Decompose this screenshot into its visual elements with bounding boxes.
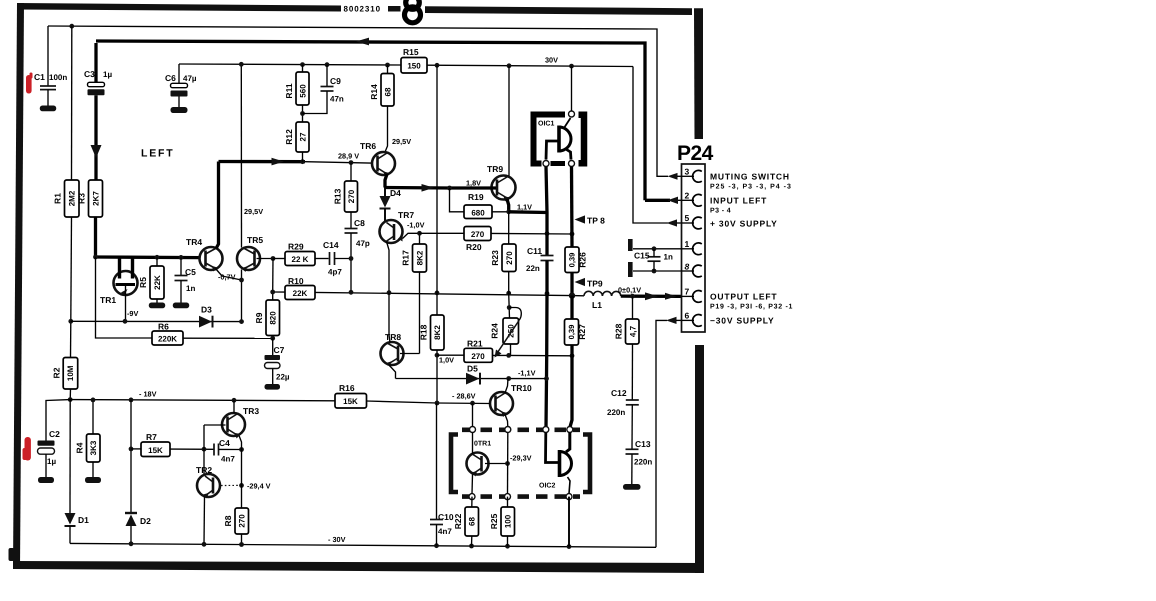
- node junction on muting wire: [69, 24, 74, 29]
- svg-text:R26: R26: [578, 252, 588, 268]
- svg-text:22n: 22n: [526, 264, 540, 273]
- svg-text:47n: 47n: [330, 95, 344, 104]
- resistor R10: [285, 276, 315, 300]
- svg-text:-1,0V: -1,0V: [407, 221, 425, 230]
- wire muting net top horizontal (C1 to P24 pin3): [48, 26, 668, 176]
- transistor TR6: [360, 141, 395, 177]
- frame border right upper: [694, 8, 703, 139]
- resistor R2: [52, 358, 78, 390]
- frame border right lower: [695, 345, 704, 573]
- svg-text:C15: C15: [634, 251, 650, 261]
- svg-text:-0,7V: -0,7V: [218, 273, 236, 282]
- svg-text:150: 150: [407, 62, 421, 71]
- svg-text:R18: R18: [419, 324, 429, 340]
- svg-text:0±0,1V: 0±0,1V: [618, 286, 641, 295]
- svg-text:220n: 220n: [634, 458, 652, 467]
- OIC2 pin circles bottom: [469, 494, 475, 500]
- arrow on C3 column pointing down: [91, 145, 102, 158]
- svg-text:R10: R10: [288, 276, 304, 286]
- svg-text:15K: 15K: [148, 446, 163, 455]
- capacitor C6: [165, 64, 197, 113]
- svg-text:0TR1: 0TR1: [474, 441, 491, 448]
- svg-text:OIC2: OIC2: [539, 483, 555, 490]
- wire column x241 TR3-emitter to R8: [241, 450, 243, 509]
- wire TR9 collector to 30V rail: [508, 66, 510, 176]
- resistor R6: [152, 322, 275, 346]
- svg-text:- 30V: - 30V: [328, 535, 346, 544]
- svg-text:8: 8: [685, 262, 690, 272]
- capacitor C10: [430, 403, 454, 546]
- main output line y292-296: [273, 291, 286, 293]
- ground below R5: [149, 303, 165, 309]
- pin 7: [682, 287, 702, 303]
- wire emitters node down to D3 line: [241, 270, 243, 322]
- resistor R5: [138, 257, 164, 303]
- transistor TR3: [222, 406, 259, 439]
- svg-text:D4: D4: [390, 188, 401, 198]
- svg-text:-29,3V: -29,3V: [510, 454, 532, 463]
- svg-text:1,8V: 1,8V: [466, 179, 481, 188]
- svg-text:29,5V: 29,5V: [392, 137, 411, 146]
- resistor R26: [565, 247, 588, 273]
- svg-text:15K: 15K: [343, 397, 358, 406]
- svg-text:R29: R29: [288, 242, 304, 252]
- svg-text:-29,4 V: -29,4 V: [247, 482, 271, 491]
- frame border short bar: [388, 6, 401, 12]
- resistor R7: [131, 432, 214, 457]
- red annotation mark bottom: [23, 437, 31, 461]
- svg-text:30V: 30V: [545, 56, 558, 65]
- arrow into pin3: [668, 173, 678, 180]
- wire OIC1 bottom-left down x547 thick: [546, 167, 547, 213]
- wire TR6 emitter to TR9 base thick with arrow: [385, 186, 450, 190]
- svg-text:270: 270: [471, 230, 485, 239]
- resistor R12: [284, 122, 309, 162]
- pin 6: [682, 311, 702, 327]
- svg-text:0,39: 0,39: [568, 253, 577, 268]
- wire TR6 emitter node thick: [385, 174, 387, 188]
- wire TR9 base thick from TR6: [450, 186, 497, 189]
- svg-text:560: 560: [299, 84, 308, 98]
- frame border bottom: [13, 561, 704, 573]
- transistor TR7: [380, 210, 415, 243]
- svg-text:C6: C6: [165, 73, 176, 83]
- wire TR8 collector to main line: [389, 293, 390, 343]
- svg-text:270: 270: [347, 189, 356, 203]
- wire TR7 emitter to R20 line: [403, 233, 420, 238]
- svg-text:R4: R4: [75, 442, 85, 453]
- wire TR4 collector thick up: [216, 162, 219, 249]
- svg-text:4,7: 4,7: [628, 325, 637, 337]
- diode D2: [125, 400, 151, 544]
- red annotation mark top: [26, 73, 33, 94]
- wire TR3 emitter: [239, 436, 242, 450]
- svg-text:1µ: 1µ: [47, 457, 56, 466]
- svg-text:R15: R15: [403, 47, 419, 57]
- capacitor C12: [607, 388, 639, 449]
- svg-text:P3 - 4: P3 - 4: [710, 208, 731, 215]
- svg-text:TR1: TR1: [100, 295, 116, 305]
- opto transistor 0TR1: [467, 433, 510, 494]
- OIC1 internal LED: [546, 118, 571, 160]
- svg-text:220n: 220n: [607, 408, 625, 417]
- svg-text:C8: C8: [354, 218, 365, 228]
- transistor TR2: [196, 465, 220, 499]
- svg-text:TR3: TR3: [243, 406, 259, 416]
- resistor R3: [77, 180, 103, 217]
- diode D4: [380, 188, 402, 222]
- svg-text:R1: R1: [53, 193, 63, 204]
- pin 3: [682, 167, 702, 183]
- svg-text:-9V: -9V: [127, 309, 138, 318]
- wire TR7 collector to main line: [387, 242, 390, 293]
- svg-text:820: 820: [269, 311, 278, 325]
- pin 2: [682, 191, 702, 207]
- output node big junction: [569, 292, 575, 298]
- svg-text:TR4: TR4: [186, 237, 202, 247]
- wire TR8 base: [400, 353, 420, 355]
- wire TR10 emitter to OIC2: [505, 415, 508, 428]
- svg-text:2M2: 2M2: [68, 190, 77, 206]
- ground below C5: [173, 303, 189, 309]
- test point TP8: [575, 215, 586, 223]
- capacitor C3 (input coupling): [84, 43, 112, 180]
- svg-text:P25 -3, P3 -3, P4 -3: P25 -3, P3 -3, P4 -3: [710, 184, 792, 191]
- svg-text:270: 270: [471, 352, 485, 361]
- svg-text:C7: C7: [274, 345, 285, 355]
- svg-text:R16: R16: [339, 383, 355, 393]
- svg-text:R12: R12: [284, 129, 294, 145]
- svg-text:OIC1: OIC1: [538, 121, 554, 128]
- svg-text:1: 1: [685, 239, 690, 249]
- svg-text:TR8: TR8: [385, 332, 401, 342]
- wire 30V rail: [179, 64, 401, 65]
- svg-text:22K: 22K: [293, 289, 308, 298]
- svg-text:TP9: TP9: [587, 279, 603, 289]
- svg-text:8K2: 8K2: [433, 325, 442, 340]
- capacitor C5: [175, 257, 197, 303]
- svg-text:OUTPUT LEFT: OUTPUT LEFT: [710, 292, 777, 302]
- svg-text:68: 68: [384, 87, 393, 96]
- opto coupler OIC1 outline: [534, 115, 585, 164]
- svg-text:C2: C2: [49, 429, 60, 439]
- resistor R28: [614, 296, 640, 399]
- transistor TR4: [186, 237, 223, 272]
- resistor R27: [565, 296, 588, 427]
- scan blob on frame bottom-left: [9, 548, 15, 561]
- frame border top-right segment: [425, 6, 692, 15]
- capacitor C9: [303, 65, 344, 114]
- wire TR5 node down to R9: [272, 259, 274, 293]
- svg-text:R7: R7: [146, 432, 157, 442]
- svg-text:220K: 220K: [158, 335, 177, 344]
- wire TR3 collector to -18V rail: [233, 400, 235, 413]
- wire thick R26 to output node: [570, 273, 573, 296]
- wire L1 to pin7 thick: [621, 294, 682, 298]
- capacitor C13: [623, 439, 652, 490]
- dotted leader TR2 base to node: [221, 484, 238, 486]
- resistor R25: [489, 497, 515, 547]
- svg-text:TR10: TR10: [511, 383, 532, 393]
- svg-text:1n: 1n: [664, 253, 673, 262]
- svg-text:270: 270: [505, 251, 514, 265]
- svg-text:C1: C1: [34, 72, 45, 82]
- resistor R16: [335, 383, 490, 408]
- ground below C1: [40, 106, 56, 112]
- wire TR9 emitter to x547 column thick: [509, 210, 547, 214]
- svg-text:8K2: 8K2: [415, 250, 424, 265]
- svg-text:C9: C9: [330, 76, 341, 86]
- pin 1: [682, 239, 702, 255]
- wire x547 column below main line: [546, 293, 547, 427]
- resistor R13: [333, 163, 358, 212]
- resistor R21: [437, 339, 574, 363]
- frame border top-left segment: [17, 3, 341, 12]
- svg-text:R20: R20: [466, 242, 482, 252]
- resistor R18: [419, 293, 445, 403]
- arrow on input wire pointing left: [356, 38, 369, 46]
- svg-text:R27: R27: [577, 324, 587, 340]
- arrow into wire at pin5: [667, 219, 678, 226]
- svg-text:10M: 10M: [66, 365, 75, 381]
- svg-text:C12: C12: [611, 388, 627, 398]
- resistor R23: [490, 212, 516, 293]
- capacitor C11: [526, 213, 554, 294]
- wire left column x71: [71, 26, 73, 180]
- svg-text:3: 3: [685, 167, 690, 177]
- svg-text:1µ: 1µ: [103, 70, 112, 79]
- wire R6 line: [96, 257, 153, 338]
- svg-text:R6: R6: [158, 322, 169, 332]
- svg-text:TR7: TR7: [398, 210, 414, 220]
- svg-text:100n: 100n: [49, 73, 67, 82]
- svg-text:2: 2: [685, 191, 690, 201]
- svg-text:250: 250: [507, 324, 516, 338]
- transistor TR1 (FET): [100, 258, 138, 321]
- svg-text:47p: 47p: [356, 239, 370, 248]
- capacitor C15 with shield stubs: [628, 239, 682, 277]
- svg-text:22K: 22K: [153, 275, 162, 290]
- svg-text:22µ: 22µ: [276, 373, 290, 382]
- svg-text:2K7: 2K7: [91, 191, 100, 206]
- svg-text:R13: R13: [333, 188, 343, 204]
- wire OIC1 top to 30V rail: [571, 66, 573, 111]
- svg-text:C13: C13: [635, 439, 651, 449]
- svg-text:R28: R28: [614, 323, 624, 339]
- svg-text:C14: C14: [323, 240, 339, 250]
- svg-text:270: 270: [238, 514, 247, 528]
- svg-text:1,1V: 1,1V: [517, 203, 532, 212]
- svg-text:7: 7: [685, 287, 690, 297]
- wire OIC2 TR10-emitter column inside: [507, 433, 509, 494]
- svg-text:R22: R22: [453, 513, 463, 529]
- svg-text:R21: R21: [467, 339, 483, 349]
- svg-text:- 28,6V: - 28,6V: [452, 392, 476, 401]
- svg-text:R5: R5: [138, 277, 148, 288]
- resistor R4: [75, 398, 102, 484]
- arrow into pin2: [668, 197, 679, 204]
- resistor R20: [420, 227, 575, 253]
- svg-text:+ 30V SUPPLY: + 30V SUPPLY: [710, 219, 778, 229]
- wire OIC1 bottom-right thick column x572: [570, 167, 574, 248]
- svg-text:22 K: 22 K: [292, 255, 309, 264]
- transistor TR10: [490, 383, 532, 417]
- svg-text:100: 100: [504, 514, 513, 528]
- OIC2 internal LED: [546, 433, 572, 494]
- capacitor C14: [323, 240, 351, 277]
- resistor R22: [453, 497, 479, 546]
- resistor R11: [284, 65, 309, 122]
- capacitor C7 (22u electrolytic): [265, 338, 290, 389]
- arrow output to pin7: [645, 292, 658, 300]
- svg-text:C10: C10: [438, 512, 454, 522]
- wire R2 column: [70, 321, 72, 357]
- svg-text:R8: R8: [223, 515, 233, 526]
- svg-text:−30V SUPPLY: −30V SUPPLY: [710, 316, 774, 326]
- wire TR2 emitter to bottom rail: [203, 497, 206, 545]
- resistor R29: [273, 242, 329, 266]
- resistor R19: [450, 188, 509, 219]
- OIC2 pin circles top: [470, 427, 476, 433]
- svg-text:D5: D5: [467, 364, 478, 374]
- transistor TR9: [487, 164, 516, 202]
- wire TR4 base rail thick y257: [96, 255, 200, 259]
- svg-text:1,0V: 1,0V: [439, 356, 454, 365]
- wire 30V rail down column x437: [436, 65, 438, 293]
- frame border left: [13, 3, 24, 569]
- svg-text:C11: C11: [527, 246, 542, 256]
- capacitor C8: [345, 212, 370, 292]
- svg-text:TR5: TR5: [247, 235, 263, 245]
- svg-text:P19 -3, P3I -6, P32 -1: P19 -3, P3I -6, P32 -1: [710, 304, 793, 311]
- svg-text:8002310: 8002310: [344, 5, 381, 14]
- svg-text:D3: D3: [201, 305, 212, 315]
- svg-text:C4: C4: [219, 438, 230, 448]
- svg-text:TR9: TR9: [487, 164, 503, 174]
- transistor TR8: [381, 332, 404, 367]
- resistor R1: [53, 180, 80, 217]
- svg-text:TR6: TR6: [360, 141, 376, 151]
- resistor R24 (preset 250): [490, 293, 522, 357]
- svg-text:4n7: 4n7: [221, 455, 235, 464]
- wire TR4 collector output thick y161 with arrow: [219, 160, 306, 163]
- svg-text:680: 680: [471, 208, 485, 217]
- svg-text:R24: R24: [490, 323, 500, 339]
- test point TP9: [575, 278, 586, 286]
- svg-text:LEFT: LEFT: [141, 148, 174, 160]
- svg-text:5: 5: [685, 213, 690, 223]
- wire R3 to TR4 base rail: [94, 217, 97, 257]
- capacitor C2 (1u electrolytic): [38, 400, 71, 483]
- resistor R14: [369, 65, 394, 152]
- pin 8: [682, 262, 702, 277]
- wire input-left thick (P24 pin2 to C3): [96, 41, 645, 200]
- svg-text:68: 68: [468, 517, 477, 526]
- wire OIC2 LED cathode to rail: [568, 497, 570, 547]
- svg-text:R9: R9: [254, 312, 264, 323]
- svg-text:4n7: 4n7: [438, 527, 452, 536]
- wire TR3 base column: [204, 424, 226, 426]
- connector P24 body: [682, 164, 706, 332]
- diode D3: [71, 305, 244, 328]
- svg-text:R17: R17: [401, 250, 411, 266]
- inductor L1: [584, 291, 621, 310]
- svg-text:MUTING SWITCH: MUTING SWITCH: [710, 172, 790, 182]
- opto coupler OIC2 outline: [451, 430, 590, 497]
- svg-text:6: 6: [685, 311, 690, 321]
- svg-text:29,5V: 29,5V: [244, 207, 263, 216]
- transistor TR5: [237, 235, 263, 272]
- diode D1: [65, 400, 90, 544]
- svg-text:D2: D2: [140, 516, 151, 526]
- svg-text:R2: R2: [52, 367, 62, 378]
- svg-text:P24: P24: [677, 142, 714, 165]
- wire TR9 emitter node thick: [507, 199, 509, 212]
- second arrow at pin7: [665, 293, 677, 300]
- svg-text:R23: R23: [490, 250, 500, 266]
- wire pin6 -30V supply: [656, 320, 667, 547]
- svg-text:D1: D1: [78, 515, 89, 525]
- capacitor C4: [214, 438, 244, 464]
- svg-text:TR2: TR2: [196, 465, 212, 475]
- resistor R17: [401, 231, 427, 354]
- svg-text:3K3: 3K3: [89, 440, 98, 455]
- svg-text:L1: L1: [592, 300, 602, 310]
- svg-text:28,9 V: 28,9 V: [338, 152, 359, 161]
- wire y403 node to OIC2: [472, 403, 474, 426]
- svg-text:0,39: 0,39: [567, 325, 576, 340]
- pin 5: [682, 213, 702, 229]
- capacitor C1: [34, 26, 67, 106]
- OIC1 pin circles: [569, 111, 575, 117]
- svg-text:27: 27: [299, 132, 308, 141]
- svg-text:R19: R19: [468, 192, 484, 202]
- svg-text:C3: C3: [84, 69, 95, 79]
- resistor R8: [223, 508, 249, 545]
- wire TR4 emitter to node: [216, 269, 242, 281]
- wire TR8 emitter to D5 line: [389, 365, 396, 379]
- svg-text:1n: 1n: [186, 284, 195, 293]
- wire TR10 collector: [505, 379, 508, 394]
- svg-text:-1,1V: -1,1V: [518, 369, 536, 378]
- svg-text:R25: R25: [489, 513, 499, 529]
- svg-text:TP 8: TP 8: [587, 216, 605, 226]
- wire 30V rail to pin5: [633, 67, 668, 224]
- svg-text:R11: R11: [284, 83, 294, 98]
- resistor R9: [254, 292, 280, 338]
- wire TR5 collector column from 30V rail: [240, 64, 242, 247]
- svg-text:R14: R14: [369, 84, 379, 100]
- svg-text:INPUT LEFT: INPUT LEFT: [710, 196, 767, 206]
- diode D5: [396, 364, 547, 385]
- svg-text:- 18V: - 18V: [139, 390, 157, 399]
- big numeral 8: [405, 0, 421, 23]
- wire TR5 base to node: [257, 258, 274, 260]
- resistor R15: [401, 47, 427, 73]
- svg-text:4p7: 4p7: [328, 268, 342, 277]
- svg-text:47µ: 47µ: [183, 74, 197, 83]
